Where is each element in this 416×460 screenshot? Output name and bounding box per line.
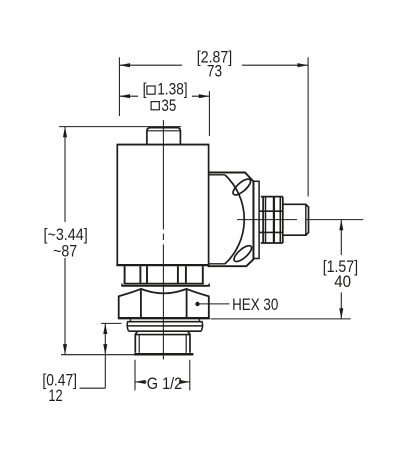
svg-text:~87: ~87	[53, 242, 77, 261]
svg-text:35: 35	[161, 96, 176, 115]
svg-text:12: 12	[48, 386, 62, 405]
svg-text:73: 73	[207, 61, 222, 80]
svg-text:[: [	[143, 79, 147, 98]
svg-text:40: 40	[334, 272, 351, 291]
svg-text:HEX 30: HEX 30	[232, 295, 278, 314]
svg-text:G 1/2: G 1/2	[147, 374, 182, 393]
